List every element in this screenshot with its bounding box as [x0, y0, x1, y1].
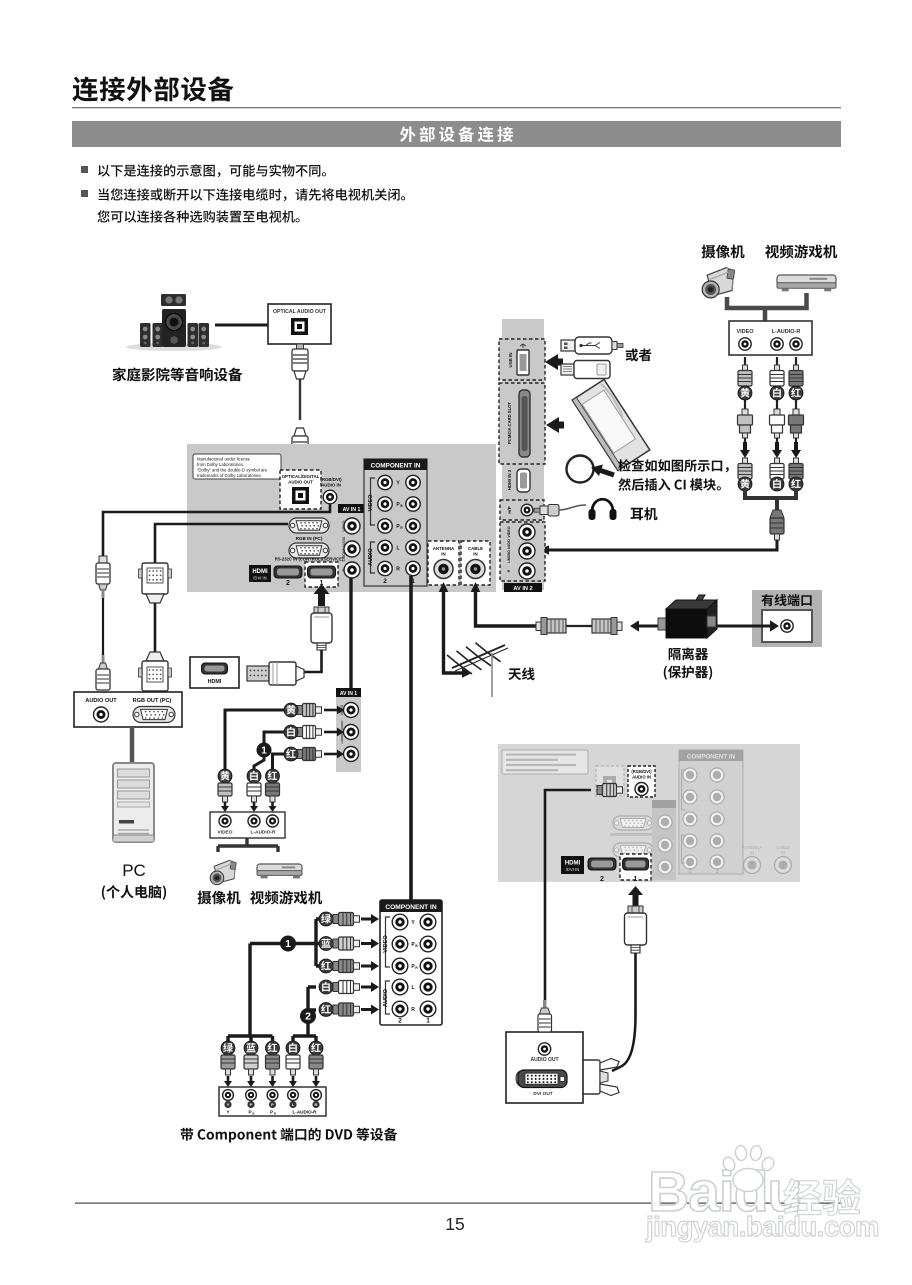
coupler 黄 column — [738, 400, 753, 443]
DVI device box (AUDIO OUT / DVI OUT) — [506, 1032, 583, 1103]
svg-text:L/MONO AUDIO: L/MONO AUDIO — [507, 539, 511, 563]
svg-text:CABLE: CABLE — [468, 546, 483, 551]
label 视频游戏机 (bottom) — [250, 891, 322, 905]
svg-text:/DVI IN: /DVI IN — [253, 576, 267, 581]
PC AUDIO OUT / RGB OUT box — [74, 692, 182, 727]
PCMCIA CARD SLOT dashed port — [499, 383, 545, 464]
arrow down 黄 column — [743, 442, 747, 450]
plug 白 into lower COMPONENT (y=987) — [333, 981, 360, 994]
colour ball 红 (lower) — [789, 477, 803, 491]
footer rule — [75, 1203, 841, 1204]
page title 连接外部设备 — [72, 76, 233, 101]
label 家庭影院等音响设备 — [113, 367, 243, 381]
colour ball 黄 (lower) — [738, 477, 752, 491]
colour ball 白 (DVD end) — [286, 1041, 300, 1055]
svg-text:VIDEO: VIDEO — [736, 329, 754, 335]
HDMI port 2 — [274, 566, 302, 587]
video game console icon (top) — [777, 275, 836, 291]
CABLE IN dashed port — [461, 541, 490, 585]
camcorder icon (top) — [702, 268, 735, 298]
svg-text:HDMI: HDMI — [252, 569, 268, 575]
DVD video bracket — [228, 1036, 273, 1041]
PC VGA cable upper connector — [139, 563, 172, 603]
svg-text:VIDEO: VIDEO — [368, 495, 374, 512]
arrow 绿 into DVD (x=228) — [227, 1076, 230, 1081]
arrow 红 into AV IN 1 — [324, 753, 338, 756]
PC audio cable upper 3.5mm plug — [96, 556, 110, 598]
camcorder icon (bottom) — [210, 860, 236, 884]
HDMI to DVI adapter — [247, 662, 304, 685]
arrow 红 into lower COMPONENT (y=966) — [361, 965, 372, 968]
PC audio cable lower 3.5mm plug — [96, 655, 110, 690]
svg-text:IN: IN — [781, 850, 785, 855]
label 或者 — [626, 348, 652, 361]
arrow 红 into camcorder panel — [271, 802, 274, 806]
coupler 白 column — [770, 400, 785, 443]
svg-text:AUDIO OUT: AUDIO OUT — [288, 480, 313, 485]
lower plug 黄 — [738, 458, 752, 479]
HDMI/DVI IN label — [249, 565, 271, 582]
svg-text:L-AUDIO-R: L-AUDIO-R — [772, 329, 801, 335]
RCA plug 红 into AV IN 1 — [297, 748, 322, 761]
arrow 黄 into AV IN 1 — [324, 709, 338, 712]
wire HDMI plug to adapter — [303, 650, 322, 672]
wire main AV IN 1 to lower AV IN 1 strip — [349, 578, 352, 702]
AV cable chain 白 column — [770, 357, 784, 386]
colour ball 白 (AV IN 1) — [284, 725, 298, 739]
arrow isolator to coax — [638, 625, 660, 628]
arrow down 红 column — [794, 442, 798, 450]
plug 白 down to camcorder panel — [247, 783, 261, 802]
USB stick 2 — [561, 361, 610, 379]
HDMI IN 3 port on side column — [507, 469, 530, 492]
bracket joining devices to AV panel — [727, 293, 807, 308]
svg-text:OPTICAL AUDIO OUT: OPTICAL AUDIO OUT — [273, 309, 327, 315]
label 耳机 — [631, 507, 658, 520]
svg-text:USB IN: USB IN — [508, 353, 513, 368]
wire from AV lead to AV IN 2 — [549, 540, 777, 550]
svg-text:AUDIO OUT: AUDIO OUT — [530, 1057, 558, 1063]
HDMI source box — [190, 657, 239, 688]
OPTICAL/DIGITAL AUDIO OUT dashed port — [280, 470, 321, 509]
Dolby licence text box — [193, 454, 281, 479]
plug 红 down to DVD (x=316) — [309, 1055, 323, 1075]
device AV jack panel (VIDEO / L-AUDIO-R) — [729, 321, 812, 355]
bullet 2 — [81, 190, 88, 197]
svg-text:AUDIO OUT: AUDIO OUT — [85, 698, 117, 704]
svg-text:COMPONENT IN: COMPONENT IN — [687, 754, 736, 761]
bullet 1 — [81, 166, 88, 173]
svg-text:/DVI IN: /DVI IN — [566, 867, 580, 872]
DVI adapter with thumbscrews — [571, 1059, 619, 1096]
svg-text:AV IN 1: AV IN 1 — [343, 507, 361, 513]
svg-text:P: P — [270, 1110, 273, 1115]
arrow 红 into DVD (x=272.5) — [271, 1076, 274, 1081]
label 天线 — [508, 667, 534, 680]
home theatre speaker system — [126, 294, 222, 351]
node 1 ball (component) — [280, 936, 296, 952]
single AV plug (dark) — [770, 510, 784, 540]
wire COMPONENT column 1 down to lower COMPONENT panel — [409, 576, 413, 900]
wall cable port box 有线端口 — [752, 590, 822, 647]
game console icon (bottom) — [257, 864, 302, 878]
colour ball 白 (component, y=987) — [319, 980, 333, 994]
stem PC box to tower — [130, 727, 135, 763]
svg-text:2: 2 — [600, 876, 604, 883]
DVD component output panel — [219, 1087, 326, 1116]
isolator (protector) icon — [658, 595, 717, 638]
svg-text:P: P — [250, 1102, 253, 1107]
svg-text:“Dolby” and the double-D symbo: “Dolby” and the double-D symbol are — [197, 468, 268, 473]
USB stick 1 — [561, 337, 623, 354]
svg-text:ANTENNA: ANTENNA — [433, 546, 455, 551]
svg-text:P: P — [248, 1110, 251, 1115]
cable merge bar to single AV lead — [745, 490, 796, 498]
coupler 红 column — [789, 400, 804, 443]
lower plug 红 — [789, 458, 803, 479]
svg-text:HDMI: HDMI — [565, 861, 581, 867]
headphone plug — [534, 505, 586, 517]
RCA plug 黄 into AV IN 1 — [297, 704, 322, 717]
arrow 蓝 into lower COMPONENT (y=943.5) — [361, 942, 372, 945]
HDMI-DVI cable wire — [612, 953, 636, 1071]
colour ball 红 (DVD end) — [309, 1041, 323, 1055]
colour ball 红 (upper) — [789, 386, 803, 400]
plug 蓝 into lower COMPONENT (y=943.5) — [333, 937, 360, 950]
faded panel details — [502, 750, 792, 880]
colour ball 红 (AV IN 1) — [284, 747, 298, 761]
USB IN dashed port — [499, 339, 545, 380]
svg-text:HDMI: HDMI — [208, 679, 222, 685]
AV IN 1 column (main panel) — [338, 504, 365, 578]
svg-text:RGB IN (PC): RGB IN (PC) — [296, 536, 323, 541]
wire PC audio to AUDIO IN — [103, 504, 330, 556]
svg-text:AUDIO: AUDIO — [383, 988, 389, 1007]
svg-text:2: 2 — [398, 1018, 402, 1025]
label 然后插入 CI 模块 — [618, 478, 721, 491]
plug 白 down to DVD (x=293) — [286, 1055, 300, 1075]
svg-text:H/P: H/P — [507, 506, 512, 513]
optical cable upper plug — [292, 344, 308, 420]
svg-text:R: R — [507, 569, 511, 572]
labels 隔离器 (保护器) — [669, 647, 708, 660]
wire red to lower panel — [273, 754, 285, 772]
wire yellow to lower panel — [225, 710, 284, 772]
section banner 外部设备连接 — [72, 121, 841, 147]
AV IN 2 dashed ports — [500, 522, 545, 581]
PC VGA cable wire — [154, 603, 157, 652]
svg-text:COMPONENT IN: COMPONENT IN — [371, 463, 421, 470]
svg-text:COMPONENT IN: COMPONENT IN — [385, 904, 437, 911]
PC tower — [113, 763, 154, 842]
colour ball 红 (component, y=966) — [319, 959, 333, 973]
arrow 红 into DVD (x=316) — [315, 1076, 318, 1081]
svg-text:AUDIO IN: AUDIO IN — [632, 775, 651, 780]
svg-text:L-AUDIO-R: L-AUDIO-R — [293, 1110, 318, 1115]
label 摄像机 (bottom) — [198, 891, 241, 905]
arrow 白 into lower COMPONENT (y=987) — [361, 986, 372, 989]
svg-text:AUDIO: AUDIO — [368, 548, 374, 565]
bullet 2 line 2 — [97, 210, 299, 222]
colour ball 白 (lower) — [770, 477, 784, 491]
colour ball 蓝 (component, y=943.5) — [319, 937, 333, 951]
plug 蓝 down to DVD (x=251) — [244, 1055, 258, 1075]
svg-text:P: P — [271, 1102, 274, 1107]
svg-text:RS-232C IN (CONTROL&SERVICE): RS-232C IN (CONTROL&SERVICE) — [275, 557, 344, 562]
highlighted HDMI row (faded panel) — [561, 854, 651, 883]
label (个人电脑) — [102, 885, 166, 900]
svg-text:Y: Y — [226, 1110, 229, 1115]
svg-text:Y: Y — [227, 1102, 230, 1107]
caption 带 Component 端口的 DVD 等设备 — [181, 1128, 398, 1143]
colour ball 红 (to camcorder panel) — [266, 769, 280, 783]
plug 黄 down to camcorder panel — [218, 783, 232, 802]
CI module card — [572, 379, 650, 470]
label 检查如如图所示口 — [618, 459, 728, 472]
headphones icon — [589, 499, 617, 520]
colour ball 白 (to camcorder panel) — [247, 769, 261, 783]
arrow 白 into DVD (x=293) — [292, 1076, 295, 1081]
colour ball 黄 (upper) — [738, 386, 752, 400]
arrow up into faded HDMI port 1 — [633, 895, 639, 906]
svg-text:VIDEO: VIDEO — [218, 830, 233, 836]
antenna wire with arrow into ANTENNA IN — [444, 589, 463, 673]
AV IN 2 label — [504, 583, 542, 592]
audio 3.5mm plug into DVI device — [538, 1000, 552, 1032]
svg-text:L: L — [396, 546, 399, 552]
svg-text:VIDEO: VIDEO — [507, 526, 511, 537]
svg-text:from Dolby Laboratories.: from Dolby Laboratories. — [197, 462, 244, 467]
title rule — [72, 107, 841, 108]
colour ball 绿 (DVD end) — [221, 1041, 235, 1055]
svg-text:2: 2 — [383, 578, 387, 585]
PC VGA cable lower connector — [139, 652, 172, 691]
plug 红 down to DVD (x=272.5) — [266, 1055, 280, 1075]
svg-text:R: R — [396, 567, 400, 573]
main TV back panel — [187, 444, 496, 592]
arrow 白 into camcorder panel — [253, 802, 256, 806]
svg-text:2: 2 — [305, 1011, 311, 1023]
highlighted RGB/DVI AUDIO IN dashed port (faded panel) — [628, 766, 655, 797]
COMPONENT IN block (main panel) — [364, 459, 427, 586]
AV IN 1 side strip — [336, 688, 361, 772]
svg-text:jingyan.baidu.com: jingyan.baidu.com — [645, 1211, 879, 1242]
camcorder/game AV panel (VIDEO / L-AUDIO-R) — [210, 812, 285, 838]
arrow down 白 column — [775, 442, 779, 450]
svg-text:DVI OUT: DVI OUT — [533, 1091, 553, 1097]
svg-text:HDMI IN 3: HDMI IN 3 — [507, 469, 512, 490]
colour ball 蓝 (DVD end) — [244, 1041, 258, 1055]
svg-text:L: L — [411, 985, 414, 991]
OPTICAL AUDIO OUT box — [268, 304, 331, 344]
svg-text:Manufactured under license: Manufactured under license — [197, 457, 251, 462]
AV cable chain 红 column — [789, 357, 803, 386]
DVD audio bracket — [293, 1036, 316, 1041]
svg-text:AV IN 2: AV IN 2 — [513, 586, 532, 592]
wire speakers to optical box — [215, 324, 268, 327]
PC audio cable wire — [102, 598, 104, 655]
lower COMPONENT IN panel — [380, 900, 442, 1025]
faded TV back panel — [498, 744, 800, 882]
label 摄像机 (top) — [702, 245, 745, 259]
svg-text:PCMCIA CARD SLOT: PCMCIA CARD SLOT — [507, 402, 512, 444]
lower plug 白 — [770, 458, 784, 479]
HDMI plug below port 1 — [311, 607, 332, 650]
svg-text:L-AUDIO-R: L-AUDIO-R — [250, 830, 276, 836]
arrow 蓝 into DVD (x=251) — [250, 1076, 253, 1081]
component video wire harness — [250, 919, 322, 1036]
svg-text:RGB OUT (PC): RGB OUT (PC) — [133, 698, 172, 704]
wire white to lower panel — [254, 732, 284, 772]
arrow USB stick into USB IN — [557, 359, 563, 366]
colour ball 红 (DVD end) — [266, 1041, 280, 1055]
svg-text:1: 1 — [634, 876, 638, 883]
arrow isolator to wall port — [716, 625, 771, 628]
arrow 白 into AV IN 1 — [324, 731, 338, 734]
RCA plug 白 into AV IN 1 — [297, 726, 322, 739]
arrow 红 into lower COMPONENT (y=1009.5) — [361, 1008, 372, 1011]
svg-text:AV IN 1: AV IN 1 — [340, 691, 357, 697]
svg-text:VIDEO: VIDEO — [383, 935, 389, 953]
svg-text:IN: IN — [473, 552, 477, 557]
ANTENNA IN dashed port — [428, 541, 459, 585]
svg-text:PC: PC — [122, 861, 146, 880]
colour ball 黄 (to camcorder panel) — [218, 769, 232, 783]
audio wire to DVI device — [545, 790, 591, 1000]
arrow CI card into PCMCIA slot — [558, 422, 564, 429]
svg-text:OPTICAL/DIGITAL: OPTICAL/DIGITAL — [282, 474, 320, 479]
arrow into HDMI port 1 — [318, 594, 325, 606]
RGB IN (PC) connector — [289, 518, 329, 541]
arrow 黄 into camcorder panel — [224, 802, 227, 806]
Baidu Jingyan watermark — [648, 1145, 801, 1224]
colour ball 绿 (component, y=919) — [319, 912, 333, 926]
AV cable chain 黄 column — [738, 357, 752, 386]
arrow pointing at magnifier — [599, 470, 614, 475]
svg-text:1: 1 — [261, 746, 267, 757]
node 1 ball — [257, 743, 272, 758]
label 视频游戏机 (top) — [765, 245, 837, 259]
svg-text:IN: IN — [441, 552, 445, 557]
svg-text:1: 1 — [285, 938, 291, 950]
TV side panel column — [502, 319, 544, 590]
svg-text:15: 15 — [445, 1214, 464, 1234]
antenna icon — [447, 643, 508, 697]
bracket under camcorder AV panel — [218, 838, 278, 852]
arrow 绿 into lower COMPONENT (y=919) — [361, 918, 372, 921]
colour ball 白 (upper) — [770, 386, 784, 400]
svg-text:R: R — [411, 1007, 415, 1013]
plug 绿 down to DVD (x=228) — [221, 1055, 235, 1075]
svg-text:(RGB/DVI): (RGB/DVI) — [631, 769, 652, 774]
RS-232C IN connector — [275, 543, 344, 562]
svg-text:1: 1 — [426, 1018, 430, 1025]
svg-text:AUDIO IN: AUDIO IN — [321, 483, 341, 488]
wire PC VGA to RGB IN — [155, 524, 288, 563]
magnifier circle — [567, 456, 594, 483]
svg-text:trademarks of Dolby Laboratori: trademarks of Dolby Laboratories. — [197, 473, 262, 478]
colour ball 红 (component, y=1009.5) — [319, 1003, 333, 1017]
optical cable lower plug — [292, 428, 308, 474]
svg-text:IN: IN — [750, 850, 754, 855]
coax cable connector pair — [536, 618, 622, 635]
plug 红 into lower COMPONENT (y=966) — [333, 960, 360, 973]
svg-text:2: 2 — [286, 580, 290, 587]
svg-text:(RGB/DVI): (RGB/DVI) — [320, 477, 342, 482]
HDMI port 1 with dashed highlight — [305, 562, 338, 587]
H/P headphone dashed port — [500, 500, 544, 520]
cable-TV wire with arrow into CABLE IN — [476, 589, 538, 626]
RGB/DVI AUDIO IN jack (main panel) — [320, 477, 342, 504]
colour ball 黄 (AV IN 1) — [284, 703, 298, 717]
component audio wire harness — [308, 987, 316, 1036]
node 2 ball (component) — [300, 1008, 316, 1024]
plug 红 down to camcorder panel — [266, 783, 280, 802]
plug 红 into lower COMPONENT (y=1009.5) — [333, 1003, 360, 1016]
HDMI plug (bottom right) — [625, 906, 647, 953]
svg-text:R: R — [315, 1102, 318, 1107]
plug 绿 into lower COMPONENT (y=919) — [333, 913, 360, 926]
audio RCA plug into faded panel — [597, 784, 623, 797]
